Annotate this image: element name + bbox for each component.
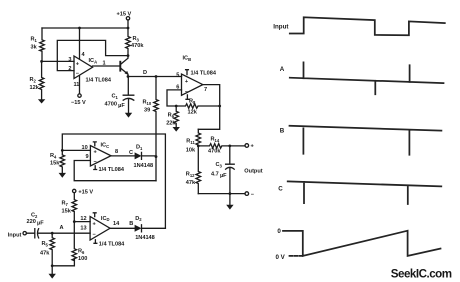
svg-text:R8: R8	[189, 99, 196, 105]
svg-text:5: 5	[176, 72, 179, 78]
svg-text:470k: 470k	[208, 149, 221, 155]
svg-text:1/4 TL084: 1/4 TL084	[86, 78, 112, 84]
svg-text:A: A	[280, 66, 285, 73]
svg-text:A: A	[60, 225, 64, 231]
svg-text:R5: R5	[42, 241, 49, 247]
svg-text:R6: R6	[78, 249, 85, 255]
svg-text:R4: R4	[50, 153, 57, 159]
svg-text:C3: C3	[216, 162, 223, 168]
svg-text:14: 14	[113, 221, 120, 227]
svg-text:ICA: ICA	[89, 58, 98, 64]
svg-text:1N4148: 1N4148	[134, 163, 154, 169]
svg-text:12: 12	[80, 216, 86, 222]
svg-text:3: 3	[68, 57, 71, 63]
svg-text:47k: 47k	[40, 251, 50, 257]
svg-text:D: D	[143, 70, 147, 76]
svg-text:R11: R11	[186, 139, 195, 145]
svg-text:Input: Input	[8, 232, 22, 238]
svg-text:ICC: ICC	[101, 143, 110, 149]
svg-text:47k: 47k	[186, 180, 196, 186]
svg-text:15k: 15k	[62, 209, 72, 215]
svg-text:R1: R1	[31, 37, 38, 43]
svg-text:D1: D1	[136, 145, 143, 151]
svg-text:C: C	[129, 150, 133, 156]
svg-text:1/4 TL084: 1/4 TL084	[191, 71, 217, 77]
svg-text:−15 V: −15 V	[71, 100, 86, 106]
svg-text:R14: R14	[211, 137, 220, 143]
svg-text:2: 2	[68, 66, 71, 72]
svg-text:ICD: ICD	[101, 216, 110, 222]
svg-text:Input: Input	[273, 23, 288, 30]
svg-text:+15 V: +15 V	[78, 190, 93, 196]
svg-text:SeekIC.com: SeekIC.com	[391, 267, 452, 280]
svg-text:D2: D2	[135, 216, 142, 222]
svg-text:1/4 TL084: 1/4 TL084	[99, 167, 125, 173]
svg-text:12k: 12k	[188, 110, 198, 116]
svg-text:Output: Output	[244, 169, 262, 175]
svg-text:11: 11	[74, 82, 80, 88]
svg-text:R10: R10	[143, 100, 152, 106]
svg-text:12k: 12k	[30, 85, 40, 91]
svg-text:R12: R12	[186, 172, 195, 178]
svg-text:0 V: 0 V	[276, 254, 286, 261]
svg-text:10k: 10k	[186, 148, 196, 154]
svg-text:3k: 3k	[31, 45, 38, 51]
svg-text:C2: C2	[31, 213, 38, 219]
svg-text:7: 7	[204, 87, 207, 93]
svg-text:0: 0	[277, 228, 281, 235]
svg-text:8: 8	[115, 149, 118, 155]
svg-text:B: B	[129, 221, 133, 227]
svg-text:1/4 TL084: 1/4 TL084	[99, 241, 125, 247]
svg-text:100: 100	[78, 256, 87, 262]
svg-text:B: B	[280, 127, 285, 134]
svg-text:39: 39	[144, 108, 150, 114]
svg-text:13: 13	[80, 226, 86, 232]
svg-text:9: 9	[86, 154, 89, 160]
svg-text:C1: C1	[112, 94, 119, 100]
svg-text:470k: 470k	[131, 43, 144, 49]
svg-text:1N4148: 1N4148	[135, 235, 155, 241]
svg-text:10: 10	[82, 145, 88, 151]
svg-text:R7: R7	[62, 201, 69, 207]
svg-text:15k: 15k	[50, 161, 60, 167]
svg-text:R2: R2	[30, 77, 37, 83]
svg-text:C: C	[278, 186, 283, 193]
svg-text:ICB: ICB	[183, 56, 192, 62]
svg-text:+15 V: +15 V	[117, 12, 132, 18]
svg-text:R3: R3	[133, 36, 140, 42]
